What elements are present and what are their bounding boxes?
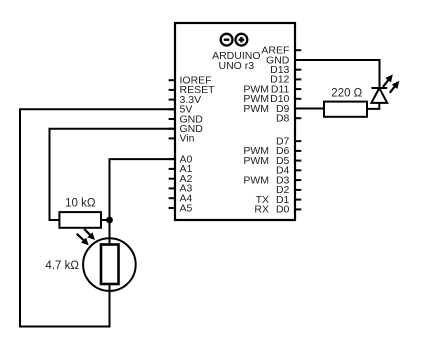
svg-text:D0: D0 <box>276 204 290 216</box>
wire resistor R1 to node A <box>101 219 110 221</box>
wire D9 to resistor R2 <box>295 108 324 110</box>
pin A4 (left) <box>169 193 193 205</box>
pin A2 (left) <box>169 173 193 185</box>
svg-text:10 kΩ: 10 kΩ <box>65 198 96 210</box>
pin A1 (left) <box>169 163 193 175</box>
pin D11 (right) <box>243 83 301 95</box>
pin D1 (right) <box>256 194 302 206</box>
pin D9 (right) <box>243 103 301 115</box>
pin D8 (right) <box>276 113 301 125</box>
LED D1 symbol <box>371 88 387 103</box>
pin D2 (right) <box>276 184 301 196</box>
svg-text:220 Ω: 220 Ω <box>331 88 362 100</box>
pin D0 (right) <box>254 204 301 216</box>
wire GND-right net to LED cathode <box>295 60 380 88</box>
resistor R1 10k body <box>59 212 101 228</box>
pin 5V (left) <box>169 104 193 116</box>
pin D10 (right) <box>243 93 301 105</box>
pin GND (right) <box>266 54 301 66</box>
wire GND-left net <box>50 129 176 220</box>
pin AREF (right) <box>261 45 301 57</box>
pin D5 (right) <box>243 155 301 167</box>
photoresistor light arrows <box>77 229 95 245</box>
pin D6 (right) <box>243 145 301 157</box>
svg-text:PWM: PWM <box>243 155 269 167</box>
wire LED anode to resistor R2 <box>367 103 379 109</box>
pin 3.3V (left) <box>169 94 202 106</box>
pin D12 (right) <box>270 74 301 86</box>
wire 5V net <box>20 109 175 326</box>
svg-text:4.7 kΩ: 4.7 kΩ <box>45 260 79 272</box>
node A junction <box>106 217 113 224</box>
svg-text:UNO r3: UNO r3 <box>219 60 255 72</box>
svg-text:Vin: Vin <box>180 133 195 145</box>
pin GND 1 (left) <box>169 113 204 125</box>
pin A5 (left) <box>169 202 193 214</box>
wire A0 net <box>110 159 176 244</box>
pin D13 (right) <box>270 64 301 76</box>
pin A0 (left) <box>169 153 193 165</box>
svg-text:RX: RX <box>254 204 269 216</box>
value label 220 Ohm <box>331 88 362 100</box>
pin Vin (left) <box>169 133 195 145</box>
photoresistor LDR1 body <box>83 238 136 291</box>
value label 4.7 kOhm <box>45 260 79 272</box>
arduino board U1 outline <box>175 23 295 220</box>
LED light arrows <box>383 74 399 92</box>
pin RESET (left) <box>169 84 215 96</box>
resistor R2 220 body <box>324 102 367 117</box>
pin D3 (right) <box>243 174 301 186</box>
svg-text:PWM: PWM <box>243 103 269 115</box>
pin D7 (right) <box>276 135 301 147</box>
pin A3 (left) <box>169 183 193 195</box>
value label 10 kOhm <box>65 198 96 210</box>
svg-text:A5: A5 <box>180 202 193 214</box>
arduino logo <box>221 34 248 46</box>
pin IOREF (left) <box>169 75 212 87</box>
pin GND 2 (left) <box>169 123 204 135</box>
pin D4 (right) <box>276 165 301 177</box>
svg-text:D8: D8 <box>276 113 290 125</box>
svg-text:PWM: PWM <box>243 174 269 186</box>
label ARDUINO UNO r3 <box>212 50 260 72</box>
